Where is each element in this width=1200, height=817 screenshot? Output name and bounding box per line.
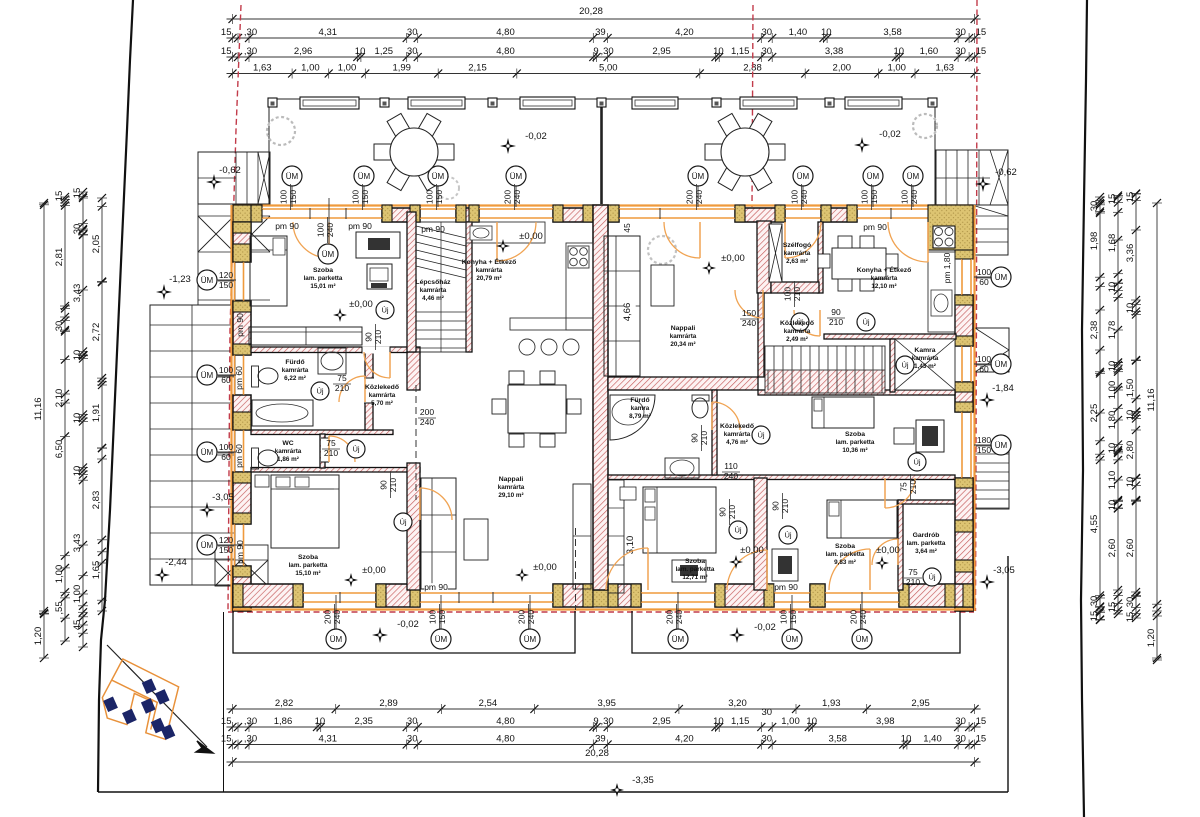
svg-text:30: 30 [955, 716, 966, 727]
svg-text:1,00: 1,00 [1107, 381, 1118, 400]
svg-text:Új: Új [784, 531, 791, 540]
svg-text:Új: Új [381, 306, 388, 315]
svg-text:kamrárta: kamrárta [369, 392, 396, 399]
svg-text:Közlekedő: Közlekedő [720, 423, 754, 430]
svg-text:Szoba: Szoba [845, 431, 865, 438]
svg-text:Fürdő: Fürdő [630, 397, 649, 404]
svg-text:15,01 m²: 15,01 m² [310, 283, 335, 290]
svg-text:180: 180 [977, 435, 991, 445]
svg-text:15: 15 [976, 734, 987, 745]
svg-text:kamrárta: kamrárta [724, 431, 751, 438]
svg-text:4,80: 4,80 [496, 46, 515, 57]
svg-text:4,80: 4,80 [496, 27, 515, 38]
svg-text:10: 10 [894, 46, 905, 57]
svg-text:240: 240 [325, 223, 335, 237]
svg-text:ÜM: ÜM [201, 541, 214, 550]
svg-text:1,63: 1,63 [253, 63, 272, 74]
svg-text:5,00: 5,00 [599, 63, 618, 74]
svg-text:,55: ,55 [54, 601, 65, 614]
svg-text:kamrárta: kamrárta [871, 275, 898, 282]
svg-text:kamrárta: kamrárta [912, 355, 939, 362]
svg-text:,30: ,30 [244, 27, 257, 38]
svg-text:12,71 m²: 12,71 m² [682, 574, 707, 581]
svg-text:1,99: 1,99 [392, 63, 411, 74]
svg-text:kamrárta: kamrárta [784, 328, 811, 335]
svg-text:30: 30 [955, 46, 966, 57]
svg-text:1,98: 1,98 [1089, 232, 1100, 251]
svg-text:2,15: 2,15 [468, 63, 487, 74]
svg-text:10: 10 [901, 734, 912, 745]
svg-text:39: 39 [595, 734, 606, 745]
svg-text:-0,02: -0,02 [525, 131, 547, 142]
svg-text:90: 90 [718, 507, 728, 517]
svg-text:60: 60 [979, 277, 989, 287]
svg-text:±0,00: ±0,00 [740, 545, 764, 556]
svg-text:1,25: 1,25 [375, 46, 394, 57]
svg-text:ÜM: ÜM [201, 371, 214, 380]
svg-text:1,15: 1,15 [731, 46, 750, 57]
svg-text:4,66: 4,66 [622, 303, 633, 322]
svg-text:1,86 m²: 1,86 m² [277, 456, 299, 463]
svg-text:2,60: 2,60 [1125, 539, 1136, 558]
svg-text:2,96: 2,96 [294, 46, 313, 57]
svg-text:60: 60 [979, 364, 989, 374]
svg-text:30: 30 [407, 734, 418, 745]
svg-text:,30: ,30 [600, 716, 613, 727]
svg-text:90: 90 [364, 332, 374, 342]
svg-text:1,00: 1,00 [887, 63, 906, 74]
svg-text:39: 39 [595, 27, 606, 38]
svg-text:100: 100 [900, 190, 910, 204]
svg-text:1,15: 1,15 [731, 716, 750, 727]
svg-text:,30: ,30 [600, 46, 613, 57]
svg-text:110: 110 [724, 461, 738, 471]
svg-text:±0,00: ±0,00 [519, 231, 543, 242]
svg-text:kamrárta: kamrárta [282, 367, 309, 374]
svg-text:6,50: 6,50 [54, 440, 65, 459]
svg-text:30: 30 [72, 224, 83, 235]
svg-text:±0,00: ±0,00 [349, 299, 373, 310]
svg-text:15: 15 [221, 27, 232, 38]
svg-text:3,36: 3,36 [1125, 244, 1136, 263]
svg-text:210: 210 [699, 431, 709, 445]
svg-text:2,82: 2,82 [275, 698, 294, 709]
svg-text:150: 150 [869, 190, 879, 204]
svg-text:Szélfogó: Szélfogó [783, 242, 811, 249]
svg-text:2,05: 2,05 [91, 235, 102, 254]
svg-text:1,00: 1,00 [338, 63, 357, 74]
svg-text:2,72: 2,72 [91, 323, 102, 342]
svg-text:30: 30 [762, 707, 773, 718]
svg-text:200: 200 [665, 610, 675, 624]
svg-text:10: 10 [355, 46, 366, 57]
svg-text:150: 150 [219, 280, 233, 290]
svg-text:15: 15 [976, 716, 987, 727]
svg-text:100: 100 [790, 190, 800, 204]
svg-text:±0,00: ±0,00 [362, 565, 386, 576]
svg-text:pm 90: pm 90 [863, 222, 887, 232]
svg-text:4,80: 4,80 [496, 734, 515, 745]
svg-text:Szoba: Szoba [835, 543, 855, 550]
svg-text:ÜM: ÜM [672, 635, 685, 644]
svg-text:ÜM: ÜM [995, 441, 1008, 450]
svg-text:210: 210 [829, 317, 843, 327]
svg-text:29,10 m²: 29,10 m² [498, 492, 523, 499]
svg-text:-1,23: -1,23 [169, 274, 191, 285]
svg-text:20,28: 20,28 [579, 6, 603, 17]
svg-text:ÜM: ÜM [797, 172, 810, 181]
svg-text:Új: Új [399, 518, 406, 527]
svg-text:3,98: 3,98 [876, 716, 895, 727]
svg-text:-0,02: -0,02 [754, 622, 776, 633]
svg-text:4,80: 4,80 [496, 716, 515, 727]
svg-text:2,35: 2,35 [354, 716, 373, 727]
svg-text:-0,02: -0,02 [397, 619, 419, 630]
svg-text:10: 10 [72, 466, 83, 477]
svg-text:±0,00: ±0,00 [533, 562, 557, 573]
svg-text:15: 15 [1089, 611, 1100, 622]
svg-text:Új: Új [352, 445, 359, 454]
svg-text:15: 15 [221, 734, 232, 745]
svg-text:3,43: 3,43 [72, 284, 83, 303]
svg-text:30: 30 [407, 46, 418, 57]
svg-text:1,40: 1,40 [923, 734, 942, 745]
svg-text:100: 100 [351, 190, 361, 204]
svg-text:1,93: 1,93 [822, 698, 841, 709]
svg-text:60: 60 [221, 375, 231, 385]
svg-text:ÜM: ÜM [510, 172, 523, 181]
svg-text:ÜM: ÜM [907, 172, 920, 181]
svg-text:10: 10 [713, 716, 724, 727]
svg-text:150: 150 [360, 190, 370, 204]
svg-text:200: 200 [517, 610, 527, 624]
svg-text:1,00: 1,00 [54, 565, 65, 584]
svg-text:150: 150 [788, 610, 798, 624]
svg-text:3,43: 3,43 [72, 534, 83, 553]
svg-text:kamrárta: kamrárta [275, 448, 302, 455]
svg-text:30: 30 [762, 27, 773, 38]
svg-text:Új: Új [913, 458, 920, 467]
svg-text:10: 10 [1125, 477, 1136, 488]
svg-text:30: 30 [955, 734, 966, 745]
svg-text:Szoba: Szoba [685, 558, 705, 565]
svg-text:75: 75 [908, 567, 918, 577]
svg-text:ÜM: ÜM [856, 635, 869, 644]
svg-text:100: 100 [977, 267, 991, 277]
svg-text:kamrárta: kamrárta [476, 267, 503, 274]
svg-text:11,16: 11,16 [1146, 388, 1157, 411]
svg-text:15: 15 [54, 191, 65, 202]
svg-text:240: 240 [858, 610, 868, 624]
svg-text:1,00: 1,00 [781, 716, 800, 727]
svg-text:,30: ,30 [244, 734, 257, 745]
svg-text:100: 100 [977, 354, 991, 364]
svg-text:10: 10 [1107, 443, 1118, 454]
svg-text:lam. parketta: lam. parketta [836, 439, 875, 446]
svg-text:kamrárta: kamrárta [498, 484, 525, 491]
svg-text:150: 150 [437, 610, 447, 624]
svg-text:120: 120 [219, 270, 233, 280]
svg-text:90: 90 [831, 307, 841, 317]
svg-text:WC: WC [282, 440, 293, 447]
svg-text:2,95: 2,95 [652, 46, 671, 57]
svg-text:3,64 m²: 3,64 m² [915, 548, 937, 555]
svg-text:2,00: 2,00 [833, 63, 852, 74]
svg-text:200: 200 [503, 190, 513, 204]
svg-text:90: 90 [771, 501, 781, 511]
svg-text:ÜM: ÜM [524, 635, 537, 644]
svg-text:pm 90: pm 90 [235, 540, 245, 564]
svg-text:2,54: 2,54 [479, 698, 498, 709]
svg-text:30: 30 [955, 27, 966, 38]
svg-text:30: 30 [407, 27, 418, 38]
svg-text:10,36 m²: 10,36 m² [842, 447, 867, 454]
svg-text:pm 1,80: pm 1,80 [942, 252, 952, 283]
svg-text:1,00: 1,00 [301, 63, 320, 74]
svg-text:10: 10 [72, 413, 83, 424]
svg-text:Nappali: Nappali [671, 325, 696, 332]
svg-text:,30: ,30 [244, 46, 257, 57]
svg-text:4,31: 4,31 [319, 27, 338, 38]
svg-text:-3,05: -3,05 [993, 565, 1015, 576]
svg-text:90: 90 [690, 433, 700, 443]
svg-text:30: 30 [54, 321, 65, 332]
svg-text:lam. parketta: lam. parketta [676, 566, 715, 573]
svg-text:150: 150 [977, 445, 991, 455]
svg-text:1,78: 1,78 [1107, 321, 1118, 340]
svg-text:20,34 m²: 20,34 m² [670, 341, 695, 348]
svg-text:10: 10 [821, 27, 832, 38]
svg-text:8,79 m²: 8,79 m² [629, 413, 651, 420]
svg-text:Gardrób: Gardrób [913, 532, 940, 539]
svg-text:100: 100 [860, 190, 870, 204]
svg-text:15: 15 [1125, 612, 1136, 623]
svg-text:kamrárta: kamrárta [670, 333, 697, 340]
svg-text:2,25: 2,25 [1089, 404, 1100, 423]
svg-text:30: 30 [407, 716, 418, 727]
svg-text:ÜM: ÜM [435, 635, 448, 644]
svg-text:15,10 m²: 15,10 m² [295, 570, 320, 577]
svg-text:210: 210 [335, 383, 349, 393]
svg-text:15: 15 [1125, 192, 1136, 203]
svg-text:-2,44: -2,44 [165, 557, 187, 568]
svg-text:45: 45 [622, 223, 632, 233]
svg-text:ÜM: ÜM [201, 448, 214, 457]
svg-text:10: 10 [1107, 361, 1118, 372]
svg-text:1,20: 1,20 [1146, 629, 1157, 648]
svg-text:Közlekedő: Közlekedő [780, 320, 814, 327]
svg-text:lam. parketta: lam. parketta [907, 540, 946, 547]
svg-text:11,16: 11,16 [33, 397, 44, 420]
svg-text:240: 240 [332, 610, 342, 624]
svg-text:-3,05: -3,05 [212, 492, 234, 503]
svg-text:15: 15 [1107, 194, 1118, 205]
svg-text:10: 10 [1125, 410, 1136, 421]
svg-text:ÜM: ÜM [786, 635, 799, 644]
svg-text:10: 10 [713, 46, 724, 57]
svg-text:Új: Új [928, 573, 935, 582]
svg-text:lam. parketta: lam. parketta [304, 275, 343, 282]
svg-text:1,63: 1,63 [936, 63, 955, 74]
svg-text:pm 90: pm 90 [348, 221, 372, 231]
svg-text:75: 75 [337, 373, 347, 383]
svg-text:120: 120 [219, 535, 233, 545]
svg-text:kamrárta: kamrárta [420, 287, 447, 294]
svg-text:-3,35: -3,35 [632, 775, 654, 786]
svg-text:30: 30 [1089, 201, 1100, 212]
svg-text:2,83: 2,83 [91, 491, 102, 510]
svg-text:15: 15 [72, 188, 83, 199]
svg-text:90: 90 [379, 480, 389, 490]
svg-text:pm 90: pm 90 [421, 224, 445, 234]
svg-text:30: 30 [762, 734, 773, 745]
svg-text:Közlekedő: Közlekedő [365, 384, 399, 391]
svg-text:±0,00: ±0,00 [876, 545, 900, 556]
svg-text:Új: Új [734, 526, 741, 535]
svg-text:ÜM: ÜM [358, 172, 371, 181]
svg-text:kamra: kamra [631, 405, 650, 412]
svg-text:10: 10 [72, 350, 83, 361]
svg-text:200: 200 [420, 407, 434, 417]
svg-text:9: 9 [593, 716, 598, 727]
svg-text:Lépcsőház: Lépcsőház [415, 279, 451, 286]
svg-text:100: 100 [316, 223, 326, 237]
svg-text:75: 75 [899, 482, 909, 492]
svg-text:1,10: 1,10 [1107, 471, 1118, 490]
svg-text:1,20: 1,20 [33, 627, 44, 646]
svg-text:3,58: 3,58 [883, 27, 902, 38]
svg-text:2,95: 2,95 [911, 698, 930, 709]
svg-text:240: 240 [420, 417, 434, 427]
svg-text:10: 10 [1107, 282, 1118, 293]
svg-text:2,10: 2,10 [54, 389, 65, 408]
svg-text:3,58: 3,58 [828, 734, 847, 745]
svg-text:240: 240 [799, 190, 809, 204]
svg-text:9,83 m²: 9,83 m² [834, 559, 856, 566]
svg-text:30: 30 [1089, 596, 1100, 607]
svg-text:210: 210 [792, 287, 802, 301]
svg-text:100: 100 [279, 190, 289, 204]
svg-text:100: 100 [783, 287, 793, 301]
svg-text:210: 210 [373, 330, 383, 344]
svg-text:210: 210 [324, 448, 338, 458]
svg-text:ÜM: ÜM [867, 172, 880, 181]
svg-text:Konyha + Étkező: Konyha + Étkező [462, 257, 517, 266]
svg-text:1,00: 1,00 [72, 585, 83, 604]
svg-text:12,10 m²: 12,10 m² [871, 283, 896, 290]
svg-text:210: 210 [727, 505, 737, 519]
svg-text:15: 15 [221, 716, 232, 727]
svg-text:pm 90: pm 90 [424, 582, 448, 592]
svg-text:4,46 m²: 4,46 m² [422, 295, 444, 302]
svg-text:-1,84: -1,84 [992, 383, 1014, 394]
svg-text:2,80: 2,80 [1125, 441, 1136, 460]
svg-text:4,31: 4,31 [319, 734, 338, 745]
svg-text:1,91: 1,91 [91, 404, 102, 423]
svg-text:10: 10 [1125, 303, 1136, 314]
svg-text:200: 200 [849, 610, 859, 624]
svg-text:240: 240 [909, 190, 919, 204]
svg-text:10: 10 [315, 716, 326, 727]
svg-text:100: 100 [428, 610, 438, 624]
svg-text:lam. parketta: lam. parketta [826, 551, 865, 558]
svg-text:ÜM: ÜM [995, 273, 1008, 282]
svg-text:-0,02: -0,02 [879, 129, 901, 140]
svg-text:2,49 m²: 2,49 m² [786, 336, 808, 343]
svg-text:240: 240 [674, 610, 684, 624]
svg-text:10: 10 [1107, 500, 1118, 511]
svg-text:Szoba: Szoba [298, 554, 318, 561]
svg-text:240: 240 [512, 190, 522, 204]
svg-text:150: 150 [219, 545, 233, 555]
svg-text:-0,62: -0,62 [219, 165, 241, 176]
svg-text:ÜM: ÜM [322, 250, 335, 259]
svg-text:100: 100 [219, 442, 233, 452]
svg-text:pm 60: pm 60 [234, 444, 244, 468]
svg-text:150: 150 [434, 190, 444, 204]
svg-text:Új: Új [757, 431, 764, 440]
svg-text:Fürdő: Fürdő [285, 359, 304, 366]
svg-text:ÜM: ÜM [995, 360, 1008, 369]
svg-text:45: 45 [72, 620, 83, 631]
svg-text:pm 60: pm 60 [234, 366, 244, 390]
svg-text:1,60: 1,60 [920, 46, 939, 57]
svg-text:3,95: 3,95 [597, 698, 616, 709]
svg-text:4,55: 4,55 [1089, 515, 1100, 534]
svg-text:2,81: 2,81 [54, 248, 65, 267]
svg-text:4,20: 4,20 [675, 27, 694, 38]
svg-text:100: 100 [779, 610, 789, 624]
svg-text:,30: ,30 [244, 716, 257, 727]
svg-text:pm 90: pm 90 [774, 582, 798, 592]
svg-text:2,95: 2,95 [652, 716, 671, 727]
svg-text:3,38: 3,38 [825, 46, 844, 57]
svg-text:ÜM: ÜM [692, 172, 705, 181]
svg-text:210: 210 [906, 577, 920, 587]
svg-text:1,65: 1,65 [91, 561, 102, 580]
svg-text:3,20: 3,20 [728, 698, 747, 709]
svg-text:9: 9 [593, 46, 598, 57]
svg-text:240: 240 [526, 610, 536, 624]
svg-text:Szoba: Szoba [313, 267, 333, 274]
svg-text:210: 210 [388, 478, 398, 492]
svg-text:30: 30 [762, 46, 773, 57]
svg-text:Kamra: Kamra [914, 347, 935, 354]
svg-text:20,79 m²: 20,79 m² [476, 275, 501, 282]
svg-text:2,63 m²: 2,63 m² [786, 258, 808, 265]
svg-text:240: 240 [694, 190, 704, 204]
svg-text:lam. parketta: lam. parketta [289, 562, 328, 569]
svg-text:4,20: 4,20 [675, 734, 694, 745]
svg-text:10: 10 [806, 716, 817, 727]
svg-text:2,89: 2,89 [379, 698, 398, 709]
svg-text:210: 210 [780, 499, 790, 513]
svg-text:200: 200 [685, 190, 695, 204]
svg-text:150: 150 [742, 308, 756, 318]
svg-text:1,80: 1,80 [1107, 411, 1118, 430]
svg-text:5,70 m²: 5,70 m² [371, 400, 393, 407]
svg-text:100: 100 [219, 365, 233, 375]
svg-text:ÜM: ÜM [201, 276, 214, 285]
svg-text:±0,00: ±0,00 [721, 253, 745, 264]
svg-text:60: 60 [221, 452, 231, 462]
svg-text:15: 15 [221, 46, 232, 57]
svg-text:200: 200 [323, 610, 333, 624]
svg-text:Új: Új [316, 387, 323, 396]
svg-text:pm 90: pm 90 [275, 221, 299, 231]
svg-text:ÜM: ÜM [432, 172, 445, 181]
svg-text:1,68: 1,68 [1107, 234, 1118, 253]
